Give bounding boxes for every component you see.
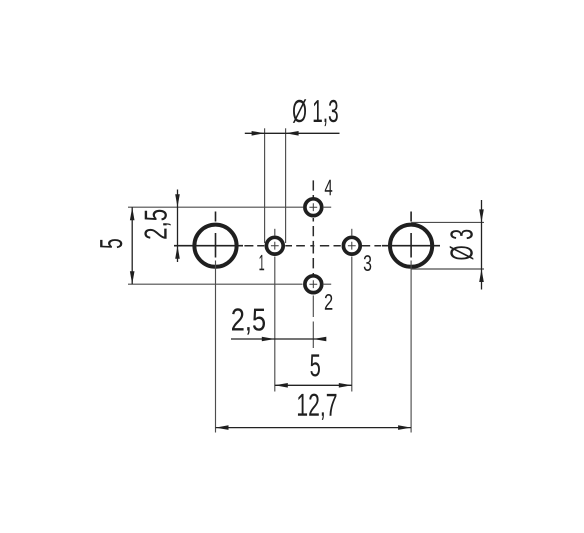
dimension 2,5 vertical: bottom arrow (175, 246, 180, 259)
dimension 12,7: left arrow (216, 425, 229, 430)
pin 4 center cross (309, 203, 317, 211)
dimension 2,5 horizontal: value label (232, 308, 265, 334)
wire: pin 1 top center stub (274, 229, 276, 236)
wire: pin 1 extension line down (274, 257, 276, 392)
dimension 5 horizontal: value label (310, 354, 320, 376)
dimension 2,5 vertical: dimension line (177, 190, 179, 263)
node axis: horizontal center line (dashed) (244, 245, 381, 247)
dimension 5 horizontal: left arrow (275, 383, 288, 388)
dimension Ø1,3: right arrow (286, 131, 299, 136)
wire: right hole crosshair vertical center (410, 233, 412, 258)
wire: pin 4 right center stub (323, 206, 331, 208)
node center: vertical center line (dashed) (312, 180, 314, 276)
dimension Ø3: bottom arrow (479, 269, 484, 282)
wire: left hole crosshair vertical stub above (215, 212, 217, 222)
wire: right hole crosshair vertical stub above (410, 212, 412, 222)
dimension Ø3: top extension line (411, 221, 484, 223)
pin label 1 (259, 255, 264, 270)
pin label 2 (325, 294, 333, 310)
node center: vertical center line extension below pin 2 (312, 296, 314, 349)
pin label 3 (364, 255, 372, 271)
dimension 5 horizontal: dimension line (275, 384, 352, 386)
dimension 2,5 horizontal: right arrow (313, 337, 326, 342)
dimension 12,7: dimension line (216, 427, 412, 429)
dimension Ø1,3: left arrow (252, 131, 265, 136)
dimension Ø1,3: right extension line (285, 128, 287, 243)
pin 1 center cross (271, 242, 279, 250)
dimension 2,5 vertical: top arrow (175, 194, 180, 207)
pin 2 (305, 276, 322, 293)
dimension Ø1,3: left extension line (264, 128, 266, 243)
dimension 5 vertical: bottom arrow (130, 271, 135, 284)
wire: pin 3 top center stub (351, 229, 353, 236)
dimension Ø3: top arrow (479, 209, 484, 222)
pin 3 (343, 237, 360, 254)
dimension Ø3: bottom extension line (411, 268, 484, 270)
wire: pin 2 right center stub (323, 283, 331, 285)
dimension Ø3: dimension line (481, 200, 483, 290)
pin 1 (266, 237, 283, 254)
wire: right hole center extension down to 12,7 dimension (410, 261, 412, 433)
dimension 5 vertical: value label (100, 239, 122, 248)
pin 2 center cross (309, 280, 317, 288)
hole left (mounting hole Ø3) (194, 225, 236, 267)
wire: right hole crosshair horizontal (382, 245, 440, 247)
dimension 5 vertical: bottom extension line (128, 283, 303, 285)
dimension 2,5 horizontal: dimension line (231, 338, 323, 340)
dimension Ø1,3: dimension line (245, 132, 340, 134)
wire: pin 3 extension line down (351, 257, 353, 392)
dimension 2,5 vertical: value label (144, 210, 170, 239)
pin 3 center cross (348, 242, 356, 250)
dimension 5 vertical: dimension line (131, 207, 133, 284)
pin label 4 (325, 180, 333, 195)
dimension 12,7: value label (298, 394, 337, 420)
dimension Ø1,3: value label (293, 99, 338, 126)
hole right (mounting hole Ø3) (390, 225, 432, 267)
dimension 5 vertical: top arrow (130, 207, 135, 220)
dimension 12,7: right arrow (398, 425, 411, 430)
wire: left hole crosshair vertical center (215, 233, 217, 258)
dimension 5 horizontal: right arrow (339, 383, 352, 388)
dimension Ø3: value label (450, 230, 474, 260)
dimension 2,5 horizontal: left arrow (262, 337, 275, 342)
pin 4 (305, 199, 322, 216)
wire: left hole crosshair horizontal (174, 245, 243, 247)
wire: left hole center extension down to 12,7 dimension (215, 261, 217, 433)
dimension 5 vertical: top extension line (128, 206, 303, 208)
